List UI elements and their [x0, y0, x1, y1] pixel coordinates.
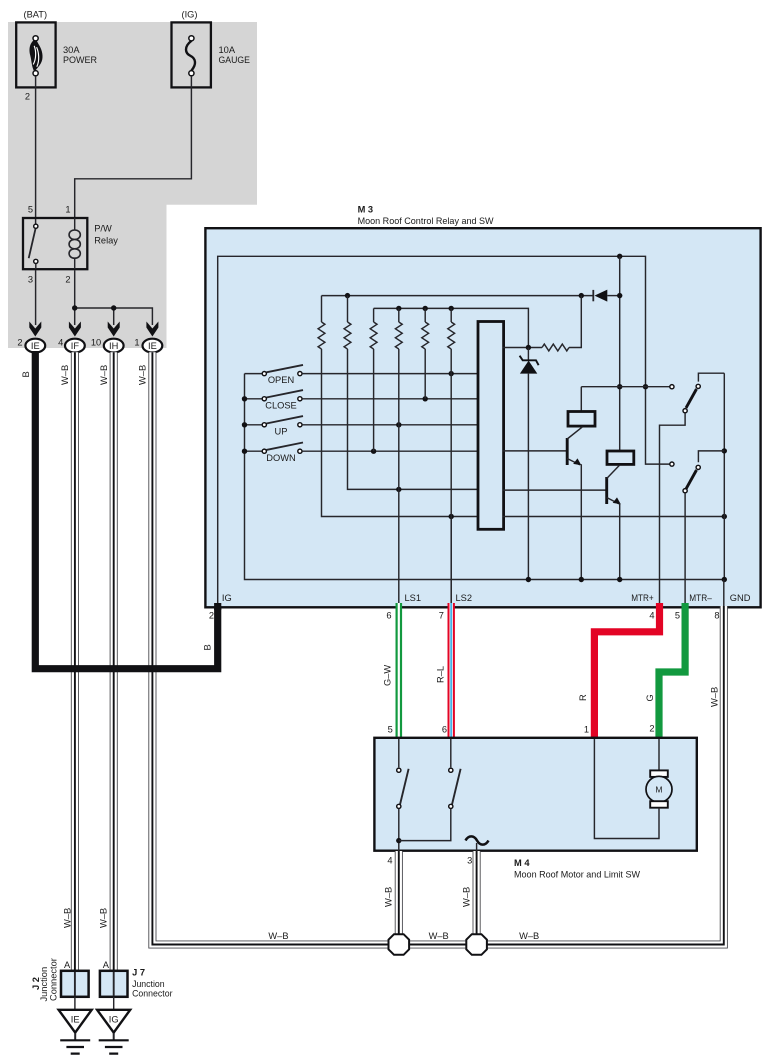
- wire W-B between junctions: [408, 940, 467, 948]
- relay contact SW1 (upper): [670, 386, 672, 388]
- wire Q2 emitter to bottom rail: [619, 503, 621, 579]
- wire R5 bottom to CLOSE line: [424, 349, 426, 399]
- wire R6 bottom through OPEN line down to LS2 pin 7: [450, 349, 452, 603]
- limit switch SW1: [398, 739, 400, 767]
- wire W-B from 10 IH to J7: [110, 352, 118, 971]
- svg-text:6: 6: [442, 725, 447, 735]
- svg-text:2: 2: [17, 337, 22, 347]
- svg-text:10A: 10A: [219, 45, 236, 55]
- wire pull-up top line 2: [374, 308, 529, 345]
- wire IG fuse to relay pin 1: [75, 76, 192, 217]
- resistor R6: [450, 308, 452, 322]
- svg-text:LS2: LS2: [456, 593, 473, 603]
- wire W-B M4 pin 3 to junction: [473, 851, 481, 934]
- svg-text:4: 4: [649, 611, 654, 621]
- svg-text:IE: IE: [31, 341, 40, 351]
- svg-text:3: 3: [467, 855, 472, 865]
- svg-text:2: 2: [209, 611, 214, 621]
- svg-text:M 4: M 4: [514, 858, 530, 868]
- wire R1 bottom to LS2 junction line: [322, 349, 480, 517]
- wire OPEN line to IC: [302, 373, 479, 375]
- motor unit M4 Moon Roof Motor and Limit SW: [374, 738, 696, 851]
- svg-text:6: 6: [386, 611, 391, 621]
- svg-text:3: 3: [28, 275, 33, 285]
- wire BAT fuse to relay pin 5: [35, 76, 37, 224]
- svg-text:IE: IE: [71, 1014, 80, 1024]
- wire CLOSE line to IC: [302, 398, 479, 400]
- svg-text:IE: IE: [148, 341, 157, 351]
- svg-text:B: B: [202, 644, 212, 650]
- svg-text:M: M: [655, 785, 662, 795]
- svg-text:5: 5: [28, 205, 33, 215]
- svg-text:A: A: [103, 960, 110, 970]
- diode D1: [592, 290, 594, 301]
- svg-text:2: 2: [649, 724, 654, 734]
- svg-text:B: B: [21, 371, 31, 377]
- wire IC to Q2 base: [503, 489, 606, 491]
- svg-text:Moon Roof Motor and Limit SW: Moon Roof Motor and Limit SW: [514, 869, 640, 879]
- wire R2 bottom to IC input: [348, 349, 480, 489]
- svg-text:IF: IF: [71, 341, 80, 351]
- resistor R1: [321, 296, 323, 322]
- junction node J/C 2: [466, 934, 487, 955]
- wire R thick MTR+ pin 4 to M4 pin 1: [594, 603, 659, 738]
- wire bottom rail (switch common / LS return): [245, 374, 725, 580]
- svg-text:4: 4: [387, 855, 392, 865]
- wire stubs to switch poles: [245, 374, 263, 452]
- svg-text:4: 4: [58, 337, 63, 347]
- wire W-B from 4 IF to J2: [71, 352, 79, 971]
- svg-text:8: 8: [714, 611, 719, 621]
- svg-text:(BAT): (BAT): [24, 10, 48, 20]
- svg-text:(IG): (IG): [182, 10, 198, 20]
- wire Q1 emitter to bottom rail: [580, 464, 582, 579]
- svg-text:IH: IH: [109, 341, 118, 351]
- wire R4 bottom through UP line to IC input: [398, 349, 400, 489]
- wire motor loop to pin 1: [594, 739, 659, 839]
- resistor R7: [542, 344, 569, 351]
- wire R7 to diode junction: [569, 296, 581, 348]
- wire DOWN line to IC: [302, 450, 479, 452]
- svg-text:P/W: P/W: [94, 224, 112, 234]
- svg-text:G: G: [645, 694, 655, 701]
- svg-text:W–B: W–B: [709, 687, 719, 707]
- switch OPEN: [266, 365, 303, 372]
- wire SW1 contact to MTR+ pin 4: [660, 413, 686, 603]
- relay P/W Relay: [23, 205, 118, 285]
- svg-text:A: A: [64, 960, 71, 970]
- wire relay pin 2 branch to connectors 4 IF, 10 IH, 1 IE: [75, 270, 153, 325]
- fuse F2 (IG) 10A GAUGE: [172, 10, 251, 88]
- connector arrow into 10 IH: [108, 322, 120, 337]
- fuse F1 (BAT) 30A POWER: [16, 10, 97, 102]
- node top rail to coil 2 line: [617, 254, 622, 259]
- motor M: [658, 739, 660, 772]
- wire UP line to IC: [302, 424, 479, 426]
- svg-text:7: 7: [439, 611, 444, 621]
- svg-text:Moon Roof Control Relay and SW: Moon Roof Control Relay and SW: [358, 216, 494, 226]
- gray harness background region: [8, 22, 257, 348]
- svg-text:1: 1: [584, 725, 589, 735]
- svg-text:R: R: [578, 694, 588, 701]
- relay coil L1: [568, 412, 595, 427]
- svg-text:W–B: W–B: [60, 365, 70, 385]
- svg-text:5: 5: [675, 611, 680, 621]
- wire G-W LS1 pin 6 to M4 pin 5: [395, 603, 402, 738]
- transistor Q1: [566, 438, 569, 465]
- resistor R4: [398, 308, 400, 322]
- transistor Q2: [605, 477, 608, 504]
- svg-text:2: 2: [65, 275, 70, 285]
- svg-text:2: 2: [25, 92, 30, 102]
- svg-text:10: 10: [91, 337, 101, 347]
- svg-text:W–B: W–B: [63, 908, 73, 928]
- svg-text:Junction: Junction: [132, 979, 165, 989]
- svg-text:MTR–: MTR–: [689, 593, 712, 603]
- wire W-B GND pin 8 to ground run: [723, 580, 725, 607]
- wire IC to Q1 base: [503, 450, 567, 452]
- wire G thick MTR- pin 5 to M4 pin 2: [659, 603, 685, 738]
- connector arrow into 1 IE: [146, 322, 158, 337]
- wire W-B from 1 IE to ground run: [152, 352, 387, 944]
- wire LS1 pin 6 line: [398, 489, 400, 603]
- wire supply vertical to relay coil L2: [619, 256, 621, 451]
- svg-text:Connector: Connector: [132, 989, 172, 999]
- wire R3 bottom to DOWN line: [373, 349, 375, 451]
- wire relay pin 3 to connector 2 IE: [35, 270, 37, 325]
- switch DOWN: [266, 443, 303, 450]
- svg-text:GND: GND: [730, 593, 751, 603]
- svg-text:1: 1: [65, 205, 70, 215]
- relay contact SW2 (lower): [670, 462, 674, 466]
- limit switch SW2: [450, 739, 452, 767]
- connector arrow into 4 IF: [69, 322, 81, 337]
- relay coil: [74, 218, 76, 230]
- svg-text:R–L: R–L: [436, 666, 446, 683]
- svg-text:IG: IG: [222, 593, 232, 603]
- svg-text:5: 5: [388, 725, 393, 735]
- switch CLOSE: [266, 390, 303, 397]
- svg-text:MTR+: MTR+: [631, 593, 654, 603]
- wire zener to bottom rail: [527, 374, 529, 580]
- svg-text:30A: 30A: [63, 45, 80, 55]
- svg-text:IG: IG: [109, 1014, 119, 1024]
- svg-text:W–B: W–B: [519, 931, 539, 941]
- svg-text:DOWN: DOWN: [266, 453, 295, 463]
- wire LS2 long line to contact common: [503, 516, 725, 518]
- relay switch contact: [29, 228, 36, 258]
- switch UP: [266, 416, 303, 423]
- junction node J/C 1: [389, 934, 410, 955]
- wire coil L1 feed: [581, 387, 669, 412]
- svg-text:M 3: M 3: [358, 205, 374, 215]
- connector arrow into 2 IE: [29, 322, 41, 337]
- wire pull-up top line 1: [322, 295, 594, 297]
- svg-text:W–B: W–B: [429, 931, 449, 941]
- svg-text:UP: UP: [275, 426, 288, 436]
- svg-text:CLOSE: CLOSE: [265, 400, 297, 410]
- svg-text:G–W: G–W: [383, 665, 393, 686]
- svg-text:Connector: Connector: [49, 958, 59, 1001]
- relay coil L2: [607, 451, 634, 464]
- IC control block U1: [478, 322, 504, 530]
- svg-text:W–B: W–B: [461, 887, 471, 907]
- wire pigtail to pin 3: [466, 836, 489, 844]
- wire W-B M4 pin 4 to junction: [395, 851, 403, 934]
- svg-text:J 7: J 7: [132, 967, 145, 977]
- wire SW2 contact to MTR- pin 5: [684, 493, 686, 603]
- svg-text:LS1: LS1: [405, 593, 422, 603]
- wire B thick from 2 IE to M3 pin 2: [35, 351, 217, 669]
- wire R-L LS2 pin 7 to M4 pin 6: [448, 603, 455, 738]
- zener diode ZD1: [527, 348, 529, 361]
- wire contact common vertical: [723, 373, 725, 579]
- ground IE: [59, 1010, 92, 1033]
- svg-text:OPEN: OPEN: [268, 375, 294, 385]
- wire diode to supply vertical: [607, 295, 619, 297]
- ground IG: [97, 1010, 130, 1033]
- svg-text:W–B: W–B: [99, 908, 109, 928]
- svg-text:W–B: W–B: [99, 365, 109, 385]
- svg-text:GAUGE: GAUGE: [219, 55, 251, 65]
- wire B stub pin 2: [214, 603, 221, 610]
- resistor R2: [347, 296, 349, 322]
- wire IG pin 2 up left side and top rail to relay contacts feed: [218, 256, 670, 606]
- wire LS2 pin 7 vertical: [450, 517, 452, 604]
- resistor R3: [373, 308, 375, 322]
- wire IC to resistor R7 line: [503, 347, 542, 349]
- svg-text:W–B: W–B: [384, 887, 394, 907]
- resistor R5: [424, 308, 426, 322]
- svg-text:POWER: POWER: [63, 55, 97, 65]
- svg-text:W–B: W–B: [268, 931, 288, 941]
- svg-text:1: 1: [134, 337, 139, 347]
- svg-text:Relay: Relay: [94, 236, 118, 246]
- svg-text:W–B: W–B: [138, 365, 148, 385]
